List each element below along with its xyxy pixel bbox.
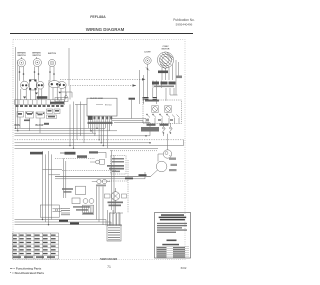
U1 pin comb [89, 116, 112, 122]
left supply wire [16, 47, 18, 131]
relay pin labels [146, 119, 149, 121]
contact under S4 [147, 68, 149, 70]
vertical feeders to terminal block [108, 210, 120, 226]
terminal block TB1 [107, 226, 121, 242]
convection motor M2 [156, 161, 167, 172]
bus wire W7 [15, 145, 184, 147]
U1 right wires [112, 119, 150, 123]
bus wire W4 [15, 135, 151, 137]
bottom bus labels [59, 220, 68, 222]
contact dots S3 [49, 71, 51, 73]
wire y178.8 [55, 172, 145, 179]
bus wire W1 [15, 127, 106, 129]
bottom bus wire B2 [15, 222, 112, 226]
bus wire W8 [15, 147, 159, 149]
wire S4 stem [147, 64, 149, 73]
bus wire W6 [15, 142, 151, 144]
electronic oven control U1 [87, 98, 117, 116]
svg-text:5995440496: 5995440496 [176, 23, 193, 27]
junction cluster x131 [129, 98, 136, 100]
terminal lugs row [143, 98, 158, 100]
component box F1 [76, 186, 86, 194]
relay board label [145, 100, 159, 102]
junction arrow A2 [23, 97, 26, 99]
dashed wire y77 [60, 78, 142, 80]
wire M2 lead [55, 170, 158, 177]
svg-text:CLOCK 60HZ.: CLOCK 60HZ. [90, 98, 104, 100]
arrow on dashed wire [142, 78, 146, 81]
surface element E1 [21, 81, 29, 89]
svg-text:BRN: BRN [15, 124, 20, 127]
surface element E2 bracket [29, 80, 36, 91]
wire color table [13, 233, 59, 259]
label lug L1 [176, 76, 182, 79]
door lock label [141, 127, 159, 132]
svg-text:⎓ = Functioning Parts: ⎓ = Functioning Parts [10, 267, 42, 271]
relay coil K1a [152, 106, 159, 112]
svg-text:SWITCH: SWITCH [17, 55, 26, 57]
bus wire W5 dashed [15, 139, 184, 141]
wire M1 link [158, 154, 163, 162]
svg-text:WIRING DIAGRAM: WIRING DIAGRAM [86, 27, 125, 32]
door lock assembly box [111, 156, 127, 175]
svg-text:5995440496: 5995440496 [100, 257, 117, 261]
lock switch S6 [170, 127, 172, 129]
junction arrow A1 [35, 93, 38, 95]
lamp assembly cluster [72, 198, 80, 204]
junction arrow A3 [41, 97, 44, 99]
wire S2 stems [35, 57, 39, 81]
fan motor B1 [157, 52, 173, 68]
thermal switch TS1 [96, 160, 100, 164]
relay contact set CR1 [152, 81, 176, 89]
riser joins [42, 219, 43, 220]
connector strip P1 labels [37, 96, 48, 99]
svg-text:ES 510: ES 510 [105, 105, 112, 107]
F3 inner element [53, 209, 62, 212]
svg-text:SWITCH: SWITCH [48, 53, 57, 55]
dashed wire x128 [127, 160, 129, 213]
surface element E5 [57, 82, 66, 89]
relay pin stubs [148, 118, 179, 124]
oven sensor RT1 [97, 179, 101, 183]
wire element drops [21, 80, 70, 100]
wire vertical v152 [153, 88, 157, 104]
surface switch S1 [17, 59, 25, 67]
bottom bus wire B1 [15, 220, 107, 226]
dashed wire y170.5 [62, 170, 117, 172]
strip text blob [50, 102, 64, 104]
latch wire corners [110, 213, 124, 226]
junction dot J1 [59, 92, 61, 94]
svg-text:6/02: 6/02 [181, 266, 187, 270]
M1 label [169, 158, 176, 160]
relay contacts inside K1 [147, 115, 180, 118]
connector strip P2 [55, 98, 68, 102]
M2 labels [171, 164, 178, 166]
title underline rule [10, 33, 193, 35]
dashed wire y181 [100, 180, 128, 182]
wire vertical v143 [143, 75, 145, 104]
strip drop wires [70, 102, 84, 149]
component box F3 [40, 205, 59, 217]
surface element E4 [49, 81, 61, 88]
U1 pin drop wires [89, 122, 112, 149]
long vertical wires right of lamp cluster [97, 150, 115, 225]
wire vertical v166 [166, 88, 174, 101]
svg-text:71: 71 [107, 265, 111, 269]
lock switch S5 [163, 127, 165, 129]
contact dots S2 [34, 71, 36, 73]
door latch motor M3 [111, 192, 120, 201]
wire x69 [68, 48, 70, 86]
surface element E3 [37, 81, 44, 89]
wire tag W13 [125, 178, 133, 180]
svg-text:* = Non-Illustrated Parts: * = Non-Illustrated Parts [10, 271, 44, 275]
dashed wire y158 [55, 157, 95, 159]
svg-text:FEFL88A: FEFL88A [90, 15, 106, 19]
lamp cluster feed wires [64, 158, 66, 198]
wire into U1 left [75, 104, 87, 106]
bus wire W2 [15, 130, 118, 132]
bottom bus wire B3 [15, 225, 122, 226]
wire label tag W10 [65, 152, 76, 155]
wire right corner [183, 140, 185, 146]
relay pin labels under box [147, 124, 156, 126]
F1 label [62, 188, 73, 190]
wire S1 stems [20, 57, 24, 81]
bus junction dots [145, 135, 147, 137]
svg-text:MOTOR: MOTOR [162, 49, 170, 51]
left drop wires [20, 117, 40, 133]
left terminal labels row1 [17, 112, 24, 118]
wire label tag W11b [89, 151, 98, 153]
contact dots S1 [19, 71, 21, 73]
switch stack SW7 [61, 209, 70, 215]
wire y176.5 [55, 176, 151, 178]
open terminal ring T1 [65, 96, 68, 99]
wire horizontal y95 [170, 94, 178, 96]
wire label tag W11 [77, 155, 87, 158]
svg-text:Publication No.: Publication No. [173, 18, 195, 22]
arrow on dashed wire 2 [133, 84, 137, 87]
svg-text:SWITCH: SWITCH [32, 55, 41, 57]
wire vertical v147 [147, 73, 149, 97]
wire S3 stems [50, 66, 54, 81]
surface switch S3 [48, 59, 55, 66]
wire S5 drop [164, 123, 171, 150]
relay board K1 dashed box [143, 100, 182, 124]
relay coil K1b [165, 106, 172, 112]
notice box [155, 213, 191, 259]
wire B1 leads [162, 60, 179, 95]
wire color table text [13, 235, 56, 258]
svg-text:LIGHT: LIGHT [144, 52, 151, 54]
bus wire W3 [15, 132, 97, 134]
diagram dotted border frame [13, 40, 185, 260]
wire label tag W9 [30, 152, 43, 155]
oven light switch S4 [144, 57, 151, 64]
wire vertical v139 [138, 70, 140, 104]
U1 pin labels [88, 116, 93, 120]
component box F2 [83, 205, 94, 214]
dashed stub near M1 [110, 150, 157, 152]
wire tag W12 [139, 174, 147, 176]
riser stubs [43, 170, 63, 175]
T1 loop wire [59, 92, 73, 98]
B1 terminal blob [158, 71, 168, 74]
surface switch S2 [33, 58, 41, 66]
connector strip P1 [15, 100, 65, 105]
vertical riser wires [43, 151, 52, 225]
dashed wire y85.5 [70, 85, 136, 87]
lock motor M1 [163, 150, 171, 158]
notice box color-code table [156, 247, 189, 257]
